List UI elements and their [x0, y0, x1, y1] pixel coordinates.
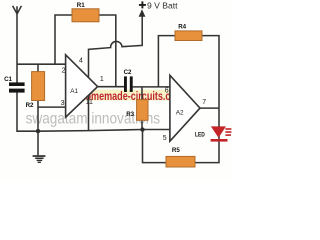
svg-text:R4: R4 — [178, 24, 186, 31]
svg-text:A2: A2 — [176, 110, 184, 117]
svg-text:6: 6 — [165, 88, 169, 95]
svg-text:1: 1 — [100, 76, 104, 83]
svg-text:R3: R3 — [126, 111, 134, 118]
svg-text:C1: C1 — [4, 76, 12, 83]
svg-text:3: 3 — [61, 100, 65, 107]
svg-text:7: 7 — [202, 99, 206, 106]
svg-text:11: 11 — [86, 99, 93, 106]
svg-text:A1: A1 — [70, 88, 78, 95]
svg-text:LED: LED — [195, 133, 205, 139]
svg-text:R2: R2 — [26, 102, 34, 109]
svg-text:5: 5 — [163, 135, 167, 142]
svg-text:C2: C2 — [124, 69, 132, 76]
svg-text:R5: R5 — [172, 147, 180, 154]
svg-text:R1: R1 — [77, 2, 85, 9]
svg-text:9 V Batt: 9 V Batt — [147, 1, 178, 11]
svg-text:2: 2 — [62, 68, 66, 75]
svg-text:4: 4 — [79, 57, 83, 64]
